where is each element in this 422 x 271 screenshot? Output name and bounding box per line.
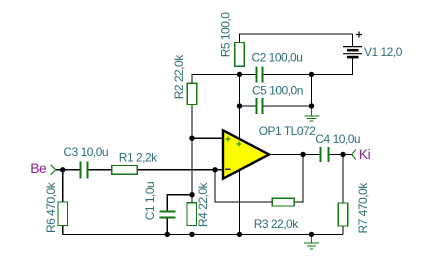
node C5 right ground	[309, 103, 314, 108]
svg-text:Ki: Ki	[359, 146, 371, 162]
wire C2 right plate to ground column	[262, 74, 311, 76]
wire op-amp V- pin to ground rail	[239, 171, 241, 235]
wire R7 top lead	[342, 155, 344, 204]
svg-text:R5 100,0: R5 100,0	[218, 12, 232, 58]
node V+ rail / R5	[237, 72, 242, 77]
resistor R1	[112, 166, 138, 175]
node C1 bottom rail	[165, 232, 170, 237]
resistor R2	[187, 83, 197, 104]
wire battery minus to ground column	[312, 57, 353, 74]
wire R6 top lead	[62, 170, 64, 202]
resistor R6	[58, 202, 68, 226]
svg-text:R6 470,0k: R6 470,0k	[44, 181, 58, 233]
node A noninverting input	[189, 136, 194, 141]
input terminal Be	[51, 165, 56, 175]
wire C5 right	[263, 105, 312, 107]
resistor R4	[187, 203, 197, 226]
node ground rail	[309, 232, 314, 237]
wire C4 to output terminal	[328, 154, 352, 156]
resistor R5	[235, 43, 245, 67]
node R4 bottom rail	[189, 232, 194, 237]
wire op-amp output to C4	[269, 154, 321, 156]
wire feedback from inverting input to R3	[215, 170, 272, 202]
capacitor C5	[257, 98, 263, 114]
resistor R7	[338, 203, 348, 226]
wire node A column R2 bottom to R4 top	[191, 104, 193, 202]
capacitor C3	[81, 162, 88, 179]
op-amp plus input mark	[226, 136, 231, 141]
output terminal Ki	[352, 150, 356, 160]
op-amp OP1	[223, 130, 269, 178]
wire op-amp noninverting input	[192, 137, 224, 139]
battery V1	[343, 32, 362, 58]
svg-text:R1 2,2k: R1 2,2k	[119, 151, 158, 165]
node C4 / R7	[340, 152, 345, 157]
wire ground column C2 right to C5 right	[311, 75, 313, 107]
wire ground rail	[63, 233, 343, 235]
op-amp minus input mark	[225, 168, 230, 170]
capacitor C4	[321, 147, 329, 162]
svg-text:C3 10,0u: C3 10,0u	[63, 145, 108, 159]
node input junction	[60, 167, 65, 172]
op-amp supply plus mark	[236, 141, 241, 146]
wire V+ rail from R2 top to C2 left plate	[192, 75, 257, 84]
svg-text:R3 22,0k: R3 22,0k	[254, 217, 300, 231]
svg-text:C4 10,0u: C4 10,0u	[315, 132, 360, 146]
svg-text:OP1 TL072: OP1 TL072	[259, 124, 316, 138]
capacitor C1	[160, 212, 176, 218]
svg-text:C5 100,0n: C5 100,0n	[252, 83, 303, 97]
svg-text:C2 100,0u: C2 100,0u	[252, 50, 303, 64]
node C5 left	[237, 103, 242, 108]
node output	[300, 152, 305, 157]
node R4 top / C1	[189, 192, 194, 197]
wire top supply from R5 to battery	[240, 34, 353, 47]
wire V+ column to op-amp supply pin	[239, 75, 241, 140]
wire C5 left	[240, 105, 257, 107]
wire input terminal to C3	[56, 169, 80, 171]
svg-text:Be: Be	[30, 160, 47, 176]
capacitor C2	[257, 67, 263, 83]
node battery minus / C2	[309, 72, 314, 77]
wire R3 right to output node	[294, 155, 303, 203]
ground at bottom rail	[304, 234, 319, 248]
svg-text:R2 22,0k: R2 22,0k	[172, 54, 186, 100]
node inverting input	[212, 167, 217, 172]
wire C1 bottom	[166, 217, 168, 234]
wire C3 to R1	[87, 169, 112, 171]
resistor R3	[272, 198, 294, 206]
svg-text:R4 22,0k: R4 22,0k	[196, 181, 210, 227]
node op-amp V- rail	[237, 232, 242, 237]
wire R1 to op-amp inverting input	[137, 169, 223, 171]
ground under C5	[305, 106, 320, 121]
svg-text:V1 12,0: V1 12,0	[364, 45, 403, 59]
wire C1 top branch	[167, 195, 192, 212]
wire R6 bottom lead	[62, 226, 64, 235]
svg-text:R7 470,0k: R7 470,0k	[356, 182, 370, 234]
svg-text:C1 1,0u: C1 1,0u	[143, 182, 157, 221]
wire R7 bottom lead	[342, 226, 344, 235]
